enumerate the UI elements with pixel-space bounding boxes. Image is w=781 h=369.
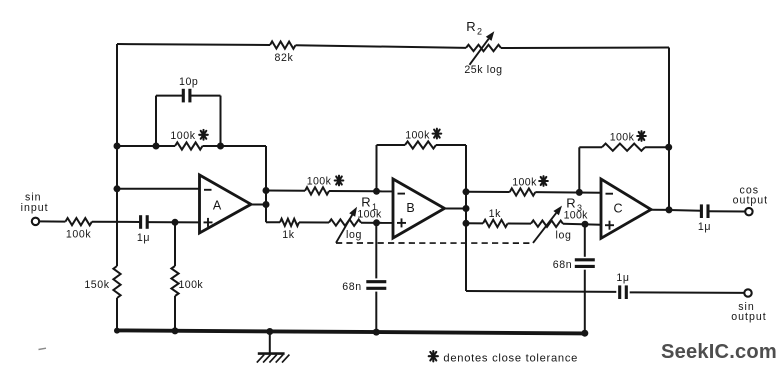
terminal: sin input — [32, 218, 39, 225]
svg-text:100k: 100k — [170, 130, 195, 142]
wire: A-feedback row left segment — [117, 145, 175, 147]
resistor 100k (input) — [65, 218, 92, 225]
svg-text:25k log: 25k log — [464, 64, 502, 76]
wire: 100k bias to bottom rail — [174, 296, 176, 331]
svg-text:100k: 100k — [66, 229, 91, 241]
asterisk for A feedback 100k — [202, 130, 204, 140]
wire: top rail right of R2 — [501, 47, 669, 50]
resistor 100k* (A feedback) — [175, 142, 203, 149]
svg-text:R: R — [361, 195, 370, 210]
svg-text:1μ: 1μ — [698, 221, 711, 233]
potentiometer R2 25k log — [466, 45, 501, 52]
svg-text:1μ: 1μ — [616, 272, 629, 284]
wire: input 100k to 1u cap, crossing left rail — [92, 221, 140, 223]
svg-text:100k: 100k — [564, 210, 589, 222]
wire: B out to 1k (second) — [466, 222, 483, 224]
op-amp A — [200, 175, 252, 233]
terminal: cos output — [745, 208, 752, 215]
capacitor 1u (input coupling) — [139, 215, 142, 229]
wire: B out to 100k* (B-C) — [466, 191, 510, 193]
svg-text:R: R — [566, 196, 575, 211]
node: C output junction — [666, 206, 673, 213]
asterisk for A-B 100k — [338, 176, 340, 186]
wire: left rail top segment — [116, 44, 118, 266]
wire: B feedback top left — [377, 144, 406, 146]
wire: down from C + to 68n (second) — [584, 224, 586, 257]
node: A output rail / 100k* tap — [263, 187, 270, 194]
svg-text:100k: 100k — [307, 176, 332, 188]
wire: A output to rail — [251, 204, 266, 206]
wire: 68n second down to bottom rail — [584, 270, 586, 334]
node: A output apex junction — [263, 201, 270, 208]
ground symbol — [269, 332, 271, 353]
svg-text:SeekIC.com: SeekIC.com — [661, 341, 777, 363]
small scan mark — [39, 348, 47, 349]
wire: 68n to bottom rail — [375, 292, 377, 332]
resistor 82k — [270, 41, 296, 48]
wire: 1u to sin terminal — [630, 291, 745, 294]
resistor 100k* (B feedback) — [405, 141, 436, 148]
svg-text:100k: 100k — [405, 130, 430, 142]
note: asterisk denotes close tolerance — [432, 351, 434, 361]
wire: 1k to R3 — [508, 223, 531, 225]
asterisk for B-C 100k — [542, 176, 544, 186]
op-amp B — [393, 179, 445, 238]
capacitor 68n (first) — [366, 280, 386, 283]
node: left rail / A-feedback junction — [114, 143, 121, 150]
terminal: sin output — [744, 289, 751, 296]
svg-text:1k: 1k — [282, 229, 294, 241]
wire: 100k* to C inverting node — [535, 191, 601, 194]
resistor 100k (bias to ground) — [171, 266, 178, 296]
svg-text:C: C — [613, 201, 622, 215]
svg-text:denotes close tolerance: denotes close tolerance — [443, 353, 578, 365]
node: bottom rail / ground stub — [266, 328, 273, 335]
svg-text:log: log — [556, 230, 572, 242]
op-amp C — [601, 179, 651, 238]
wire: sin output riser corner — [466, 290, 616, 293]
wire: R3 to C non-inverting input — [563, 224, 601, 225]
wire: 1u cap to A non-inverting input — [147, 221, 200, 223]
svg-text:68n: 68n — [342, 281, 361, 293]
capacitor 10p — [182, 89, 185, 103]
wire: left rail bottom segment — [116, 298, 118, 332]
node: bottom rail / 68n first — [373, 329, 380, 336]
resistor 1k (B to R3) — [483, 220, 508, 227]
node: 10p loop left junction — [153, 143, 160, 150]
wire: 100k* to B inverting node — [329, 190, 377, 192]
wire: right rail down to C output — [668, 48, 670, 211]
wire: top rail between 82k and R2 — [296, 45, 467, 48]
wire: A-feedback row right segment to A output rail — [203, 145, 267, 147]
wire: B feedback left vertical — [376, 145, 378, 191]
wire: down to 100k bias resistor — [174, 222, 176, 266]
svg-text:input: input — [21, 202, 49, 214]
svg-text:log: log — [346, 229, 362, 241]
wire: A out to 100k* (A-B) — [266, 190, 305, 192]
svg-text:100k: 100k — [357, 209, 382, 221]
dashed gang line between R1 and R3 — [336, 242, 533, 244]
wire: C output apex to rail — [651, 209, 669, 211]
wire: down from B + to 68n — [375, 223, 377, 279]
resistor 100k* (B to C) — [510, 188, 536, 195]
svg-text:R: R — [466, 19, 475, 34]
wire: 10p loop top right — [190, 95, 221, 97]
node: 10p loop right junction — [217, 143, 224, 150]
resistor 1k (A to R1) — [280, 219, 299, 226]
capacitor 1u (sin output) — [618, 285, 621, 299]
node: B + input / 68n junction — [373, 219, 380, 226]
node: B output apex junction — [463, 205, 470, 212]
node: B inverting input junction — [373, 188, 380, 195]
svg-text:68n: 68n — [553, 259, 572, 271]
wire: C feedback top right — [645, 146, 669, 148]
svg-text:100k: 100k — [610, 132, 635, 144]
svg-text:1k: 1k — [489, 208, 501, 220]
wire: 10p loop right vertical — [220, 96, 222, 146]
svg-text:output: output — [731, 311, 766, 323]
potentiometer R3 100k log — [531, 220, 563, 227]
svg-text:1μ: 1μ — [137, 232, 150, 244]
wire: C output to 1u — [669, 209, 701, 212]
svg-text:B: B — [406, 201, 414, 215]
node: right rail / C feedback junction — [665, 144, 672, 151]
node: left rail / A inverting input junction — [114, 185, 121, 192]
wire: R1 to B non-inverting input — [361, 222, 393, 224]
wire: C feedback top left — [579, 146, 602, 148]
wire: sin input to 100k — [39, 220, 65, 222]
svg-text:10p: 10p — [179, 76, 198, 88]
resistor 150k (in left rail) — [113, 266, 120, 298]
wire: 10p loop top left — [156, 95, 183, 97]
svg-text:100k: 100k — [512, 177, 537, 189]
capacitor 68n (second) — [575, 258, 595, 261]
asterisk for B feedback 100k — [436, 129, 438, 139]
node: A + input / 100k-to-ground junction — [172, 219, 179, 226]
wire: B feedback top right — [436, 144, 466, 146]
svg-text:output: output — [733, 195, 768, 207]
wire: B output apex to rail — [445, 208, 467, 210]
node: C + input / 68n junction — [582, 221, 589, 228]
capacitor 1u (cos output) — [700, 204, 703, 218]
resistor 100k* (C feedback) — [602, 144, 645, 151]
wire: 1k to R1 — [299, 221, 329, 223]
node: bottom rail right end — [581, 330, 588, 337]
node: B output rail / 100k* tap — [463, 188, 470, 195]
wire: B output rail vertical — [465, 145, 467, 291]
wire: A output rail vertical — [265, 146, 267, 222]
wire: A inverting input — [117, 188, 200, 190]
wire: C feedback left vertical — [578, 147, 580, 192]
wire: 10p loop left vertical — [155, 96, 157, 146]
wire: A out to 1k — [266, 221, 280, 223]
node: bottom rail / 100k bias — [172, 327, 179, 334]
svg-text:150k: 150k — [84, 279, 109, 291]
svg-text:82k: 82k — [275, 52, 294, 64]
wire: B inverting input — [377, 190, 394, 192]
asterisk for C feedback 100k — [640, 131, 642, 141]
node: C inverting input junction — [576, 189, 583, 196]
svg-text:2: 2 — [477, 27, 482, 37]
bottom ground rail — [117, 330, 585, 333]
resistor 100k* (A to B) — [305, 187, 329, 194]
node: B output rail / 1k tap — [463, 220, 470, 227]
node: bottom rail left corner — [114, 328, 120, 334]
wire: 1u to cos terminal — [708, 210, 745, 212]
potentiometer R1 100k log — [329, 219, 361, 226]
wire: top rail left of 82k — [117, 44, 270, 45]
svg-text:A: A — [213, 199, 222, 213]
svg-text:100k: 100k — [179, 279, 204, 291]
